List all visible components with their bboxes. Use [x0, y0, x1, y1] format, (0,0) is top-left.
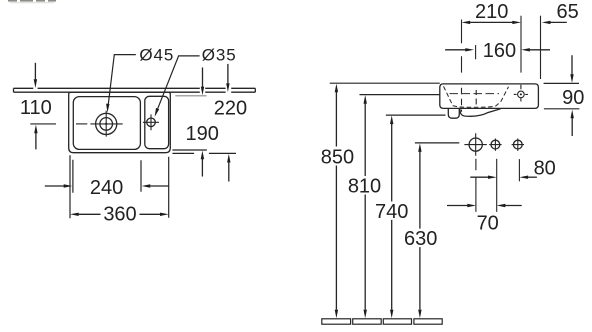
deck shelf outline (plan) — [145, 96, 169, 148]
svg-text:240: 240 — [90, 177, 123, 199]
ext line left (drain ref) x=461.5 — [461, 20, 463, 112]
hanging tab T1 (fixing bracket) — [448, 109, 459, 118]
floor blocks — [322, 319, 442, 324]
wall left end cap — [13, 88, 15, 92]
faucet centerline to 110 dim — [30, 123, 56, 125]
svg-text:630: 630 — [404, 228, 437, 250]
ext line 65 right x=540.5 — [540, 16, 542, 79]
dim 160 — [445, 45, 550, 59]
height ref lines — [330, 82, 440, 84]
height dim 850 — [335, 84, 338, 319]
dim 190: top ref (gray) + arrows — [172, 68, 207, 177]
svg-text:850: 850 — [321, 146, 354, 168]
svg-text:90: 90 — [562, 87, 584, 109]
leader line Ø45 — [106, 55, 136, 113]
wall band (top view wall section) — [14, 88, 256, 92]
svg-text:70: 70 — [477, 213, 499, 235]
height dim 810 — [364, 95, 367, 318]
bowl interior (hidden, dashed) — [444, 86, 509, 107]
svg-text:Ø35: Ø35 — [202, 46, 237, 65]
dim 240 — [45, 160, 169, 193]
svg-text:360: 360 — [103, 204, 136, 226]
basin outer outline (plan) — [69, 92, 171, 153]
faucet hole Ø45 — [76, 111, 123, 137]
svg-text:220: 220 — [214, 98, 247, 120]
height dim 630 — [418, 143, 421, 318]
wall right end cap — [254, 88, 256, 92]
hole Ø35 — [143, 114, 159, 130]
svg-text:160: 160 — [483, 40, 516, 62]
svg-text:210: 210 — [475, 1, 508, 23]
inner bowl outline (plan) — [73, 97, 140, 150]
ext lines below circles — [475, 159, 477, 212]
wall upper line — [14, 87, 256, 89]
drain centerline through basin x=476.2 — [475, 90, 477, 105]
dim 210 — [462, 21, 522, 24]
dim 80 — [470, 176, 537, 179]
svg-text:Ø45: Ø45 — [139, 46, 174, 65]
basin outline (front view) — [440, 84, 539, 109]
hanging tab T2 (drain boss) — [460, 109, 501, 117]
svg-text:80: 80 — [534, 157, 556, 179]
svg-text:65: 65 — [556, 1, 578, 23]
wall lower line — [14, 91, 256, 93]
height dim 740 — [390, 115, 393, 318]
dim 65 — [542, 21, 567, 24]
dim 70 — [447, 204, 522, 207]
svg-text:740: 740 — [375, 201, 408, 223]
svg-text:110: 110 — [20, 97, 52, 119]
dim 220 arrows + bottom ref — [172, 64, 236, 182]
leader line Ø35 — [155, 56, 200, 117]
dim 90 top ref + arrows — [544, 55, 580, 136]
cropped logo text top-left — [8, 0, 56, 3]
ext line tap column x=521 — [520, 16, 522, 90]
tap hole symbol (front) — [514, 91, 528, 101]
dim 360 — [70, 155, 169, 218]
svg-text:810: 810 — [348, 176, 381, 198]
svg-text:190: 190 — [186, 123, 219, 145]
circles row: drain + fixing holes — [464, 133, 524, 156]
dim 110 arrows — [34, 63, 38, 150]
